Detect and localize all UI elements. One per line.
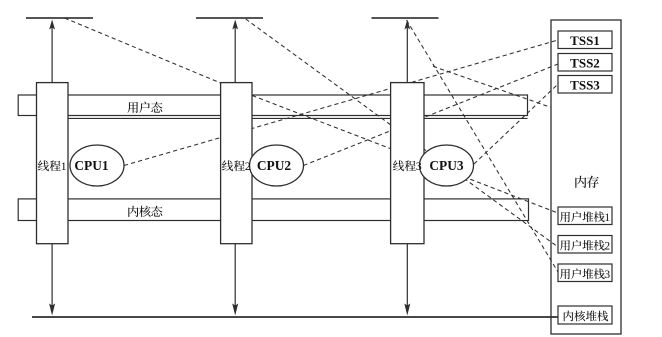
svg-text:2: 2 [604,241,610,253]
svg-text:TSS2: TSS2 [570,55,600,70]
svg-text:3: 3 [604,269,610,281]
svg-text:TSS3: TSS3 [570,77,600,92]
svg-text:2: 2 [245,159,251,173]
svg-text:CPU1: CPU1 [74,158,108,173]
svg-text:3: 3 [416,159,422,173]
svg-text:TSS1: TSS1 [570,33,600,48]
svg-text:1: 1 [604,212,610,224]
svg-text:CPU3: CPU3 [429,158,464,173]
svg-text:1: 1 [61,159,67,173]
svg-text:CPU2: CPU2 [257,158,292,173]
